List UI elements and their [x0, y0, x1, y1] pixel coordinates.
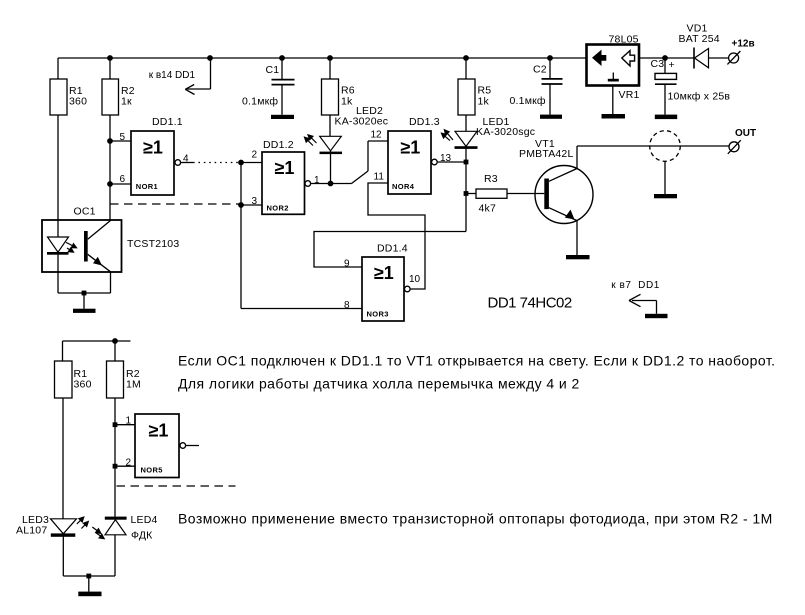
- svg-text:2: 2: [252, 150, 258, 161]
- svg-text:5: 5: [120, 132, 126, 143]
- svg-text:Если ОС1 подключен к DD1.1 то: Если ОС1 подключен к DD1.1 то VT1 открыв…: [178, 352, 775, 368]
- svg-text:360: 360: [69, 96, 87, 108]
- svg-text:1к: 1к: [121, 96, 132, 108]
- svg-text:OUT: OUT: [735, 128, 756, 139]
- svg-text:OC1: OC1: [74, 206, 96, 218]
- svg-text:DD1.2: DD1.2: [263, 139, 294, 151]
- svg-text:4: 4: [183, 154, 189, 165]
- svg-text:Возможно применение вместо тра: Возможно применение вместо транзисторной…: [178, 511, 773, 527]
- svg-text:0.1мкф: 0.1мкф: [510, 95, 546, 107]
- svg-text:к в7 DD1: к в7 DD1: [611, 280, 660, 291]
- svg-text:9: 9: [344, 259, 350, 270]
- svg-text:≥1: ≥1: [275, 158, 295, 178]
- svg-text:NOR5: NOR5: [141, 466, 163, 475]
- svg-text:C3: C3: [651, 58, 665, 70]
- svg-text:VR1: VR1: [619, 89, 640, 101]
- svg-text:LED4: LED4: [131, 514, 158, 526]
- svg-text:+: +: [669, 59, 675, 71]
- svg-text:13: 13: [440, 153, 452, 164]
- svg-text:78L05: 78L05: [609, 34, 639, 46]
- svg-text:Для логики работы датчика холл: Для логики работы датчика холла перемычк…: [178, 376, 580, 392]
- svg-text:≥1: ≥1: [149, 421, 169, 441]
- svg-text:≥1: ≥1: [374, 263, 394, 283]
- svg-text:4k7: 4k7: [479, 203, 497, 215]
- svg-text:AL107: AL107: [16, 525, 47, 537]
- svg-text:0.1мкф: 0.1мкф: [242, 96, 278, 108]
- svg-text:10мкф х 25в: 10мкф х 25в: [668, 91, 731, 103]
- svg-text:360: 360: [74, 379, 92, 391]
- svg-text:1k: 1k: [478, 96, 490, 108]
- svg-text:NOR3: NOR3: [367, 310, 389, 319]
- svg-text:C1: C1: [266, 64, 280, 76]
- svg-text:NOR4: NOR4: [392, 182, 415, 191]
- svg-text:PMBTA42L: PMBTA42L: [519, 148, 574, 160]
- svg-text:KA-3020sgc: KA-3020sgc: [476, 126, 535, 138]
- svg-text:C2: C2: [533, 64, 547, 76]
- svg-text:8: 8: [344, 300, 350, 311]
- svg-text:10: 10: [409, 274, 421, 285]
- svg-text:к в14 DD1: к в14 DD1: [149, 70, 196, 81]
- svg-text:2: 2: [126, 458, 132, 469]
- svg-text:+12в: +12в: [732, 39, 755, 50]
- svg-text:ФДК: ФДК: [131, 530, 153, 542]
- svg-text:≥1: ≥1: [143, 138, 163, 158]
- svg-text:3: 3: [252, 196, 258, 207]
- svg-text:11: 11: [374, 172, 385, 183]
- svg-text:TCST2103: TCST2103: [127, 238, 179, 250]
- svg-text:6: 6: [120, 174, 126, 185]
- svg-text:1: 1: [314, 175, 320, 186]
- svg-text:NOR2: NOR2: [267, 204, 289, 213]
- svg-text:R3: R3: [484, 173, 498, 185]
- svg-text:DD1.3: DD1.3: [409, 116, 440, 128]
- svg-text:1: 1: [126, 416, 132, 427]
- svg-text:DD1 74HC02: DD1 74HC02: [488, 294, 572, 311]
- svg-text:NOR1: NOR1: [136, 182, 158, 191]
- svg-text:1k: 1k: [341, 96, 353, 108]
- svg-text:12: 12: [371, 130, 383, 141]
- svg-text:DD1.4: DD1.4: [377, 243, 408, 255]
- svg-text:≥1: ≥1: [400, 138, 420, 158]
- svg-text:1M: 1M: [126, 379, 141, 391]
- svg-text:DD1.1: DD1.1: [152, 116, 183, 128]
- svg-text:BAT 254: BAT 254: [679, 33, 720, 45]
- svg-text:KA-3020ec: KA-3020ec: [335, 116, 389, 128]
